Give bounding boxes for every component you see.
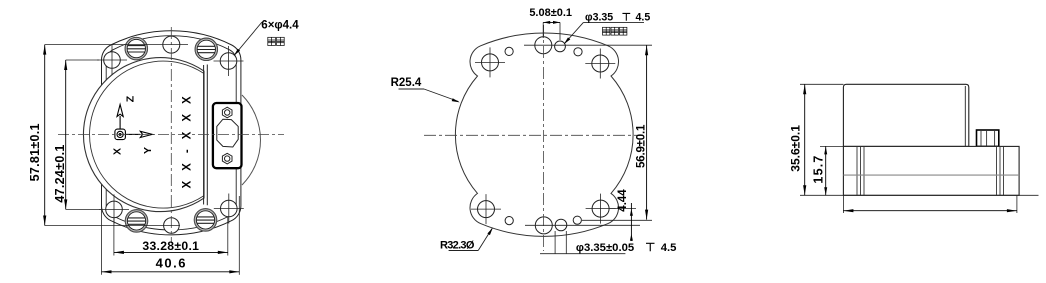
left view: label 6x4.4 through hole bbox=[234, 20, 299, 56]
left view: centerlines bbox=[58, 27, 284, 243]
middle view: four lobe holes bbox=[478, 54, 610, 218]
middle view: bottom hole pair bbox=[535, 217, 567, 234]
svg-text:57.81±0.1: 57.81±0.1 bbox=[28, 123, 42, 181]
left view: body circle inner bbox=[90, 61, 204, 208]
right view: dimension 15.7 bbox=[811, 146, 827, 195]
left view: dimension 47.24 bbox=[53, 60, 67, 209]
right view: connector bump bbox=[977, 130, 999, 146]
right view: extension lines bbox=[800, 84, 1039, 213]
middle view: dimension 4.44 bbox=[617, 189, 633, 241]
left view: DB9 screw bottom bbox=[222, 153, 232, 164]
left view: dimension 40.6 bbox=[102, 256, 240, 274]
middle view: lobe hole crosshairs bbox=[471, 47, 616, 224]
left view: six through holes bbox=[104, 36, 237, 233]
middle view: label R25.4 bbox=[391, 77, 460, 103]
svg-text:R25.4: R25.4 bbox=[391, 77, 422, 89]
svg-text:X: X bbox=[112, 148, 124, 155]
left view: body circle outer bbox=[83, 58, 204, 212]
left view: flange outline bbox=[101, 31, 240, 235]
middle view: label phi3.35 0.05 depth 4.5 bbox=[540, 242, 676, 254]
svg-text:6×φ4.4: 6×φ4.4 bbox=[261, 20, 299, 32]
right view: body box bbox=[843, 84, 968, 146]
middle view: dimension 56.9 bbox=[636, 45, 649, 219]
middle view: label R32.39 bbox=[440, 228, 493, 252]
left view: flange inner rim bbox=[106, 36, 236, 230]
middle view: dimension 5.08 bbox=[529, 7, 572, 24]
right view: flange mid line bbox=[843, 174, 1019, 176]
middle view: outline bbox=[455, 33, 633, 236]
svg-text:R32.3Ø: R32.3Ø bbox=[440, 239, 475, 251]
right view: dimension 35.6 bbox=[789, 84, 807, 195]
left view: coordinate axes icon bbox=[115, 105, 152, 140]
right view: flange box bbox=[843, 146, 1019, 195]
svg-text:40.6: 40.6 bbox=[156, 256, 187, 271]
middle view: top hole pair bbox=[535, 37, 566, 54]
left view: dimension 57.81 bbox=[28, 45, 46, 226]
left view: DB9 screw top bbox=[222, 107, 232, 118]
svg-text:5.08±0.1: 5.08±0.1 bbox=[529, 7, 572, 19]
middle view: centerlines bbox=[424, 25, 643, 251]
svg-text:35.6±0.1: 35.6±0.1 bbox=[789, 125, 803, 172]
svg-text:56.9±0.1: 56.9±0.1 bbox=[636, 124, 648, 168]
svg-text:Z: Z bbox=[125, 95, 137, 102]
svg-text:47.24±0.1: 47.24±0.1 bbox=[53, 144, 67, 202]
left view: hole crosshairs bbox=[97, 45, 244, 224]
svg-text:4.44: 4.44 bbox=[617, 189, 629, 212]
middle view: extension lines bbox=[524, 22, 652, 253]
svg-text:φ3.35±0.05⊤4.5: φ3.35±0.05⊤4.5 bbox=[576, 242, 677, 254]
left view: DB9 D-opening bbox=[217, 119, 238, 147]
left view: DB9 connector plate bbox=[213, 103, 242, 168]
left view: connector boss bulge bbox=[242, 95, 260, 185]
svg-text:XX-XXX: XX-XXX bbox=[181, 86, 193, 188]
svg-text:15.7: 15.7 bbox=[811, 154, 825, 183]
right view: bottom dimension line bbox=[843, 209, 1017, 212]
middle view: label phi3.35 depth 4.5 threaded bbox=[564, 11, 651, 44]
left view: extension lines bbox=[45, 45, 240, 275]
left view: dimension 33.28 bbox=[114, 239, 228, 254]
right view: flange corner lines bbox=[857, 146, 1004, 195]
svg-text:33.28±0.1: 33.28±0.1 bbox=[142, 239, 199, 253]
middle view: small holes bbox=[505, 47, 582, 224]
svg-text:Y: Y bbox=[142, 147, 154, 154]
left view: body chord verticals bbox=[204, 65, 208, 206]
left view: four slotted screws bbox=[125, 37, 218, 232]
